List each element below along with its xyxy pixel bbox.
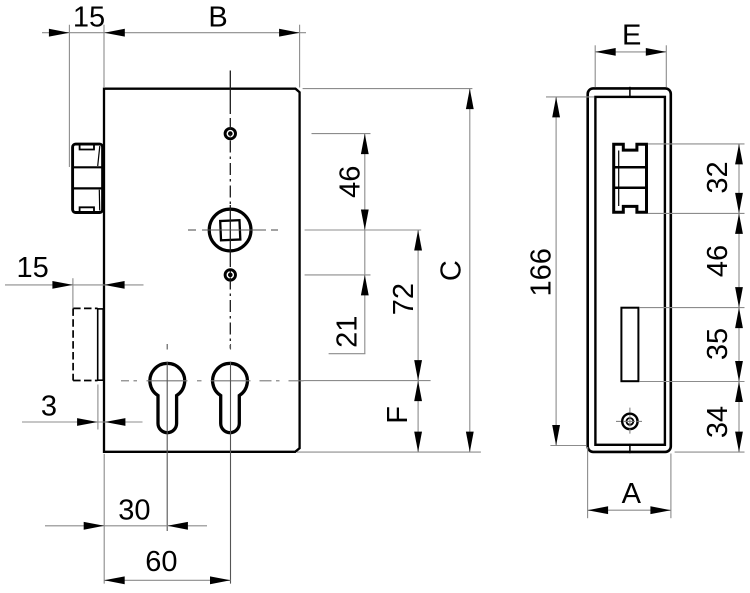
dim 30: line xyxy=(45,525,207,527)
spindle follower with square hole xyxy=(209,209,251,251)
svg-text:3: 3 xyxy=(41,391,57,423)
keyhole 1 vertical centerline xyxy=(166,344,168,531)
dim 15 left: line xyxy=(5,284,144,286)
svg-text:166: 166 xyxy=(526,248,558,296)
dim A extensions xyxy=(587,447,589,518)
dim 21 line vertical + shelf xyxy=(364,230,366,354)
svg-text:F: F xyxy=(382,406,414,424)
dim C / F bottom extension xyxy=(297,451,481,453)
svg-text:15: 15 xyxy=(16,252,48,284)
C top / bottom xyxy=(466,89,474,110)
svg-text:E: E xyxy=(622,20,641,52)
dim 46 line vertical xyxy=(364,134,366,230)
dim F line vertical xyxy=(417,381,419,453)
ext top screw right xyxy=(312,133,371,135)
svg-text:60: 60 xyxy=(145,546,177,578)
dim E line xyxy=(595,51,666,53)
svg-text:30: 30 xyxy=(118,495,150,527)
latch opening (side view) xyxy=(614,144,647,212)
profile cylinder hole left xyxy=(150,363,185,432)
B left arrow xyxy=(104,29,125,37)
dim 15 top: extension line latch edge xyxy=(68,25,70,167)
60 pair (inside) xyxy=(104,576,125,584)
dim A line xyxy=(588,509,671,511)
F top / bottom xyxy=(414,381,422,402)
E right arrow xyxy=(646,48,667,56)
dim 3: line xyxy=(22,421,143,423)
svg-text:15: 15 xyxy=(73,2,105,34)
hidden deadbolt (dashed) xyxy=(73,308,98,380)
keyhole horizontal centerline xyxy=(121,380,304,382)
right column dim line vertical xyxy=(738,144,740,452)
screw hole (side view) xyxy=(616,408,644,436)
dim 166 line vertical xyxy=(555,97,557,446)
A left / right xyxy=(588,506,609,514)
B right arrow xyxy=(279,29,300,37)
svg-text:72: 72 xyxy=(388,283,420,315)
166 top / bottom xyxy=(552,97,560,118)
21 bottom outside arrow xyxy=(361,275,369,296)
spindle horizontal centerline xyxy=(188,229,278,231)
deadbolt face slot xyxy=(98,309,104,380)
top screw hole xyxy=(225,128,235,138)
svg-text:46: 46 xyxy=(702,245,734,277)
lower screw hole xyxy=(225,270,235,280)
dim line 15/B horizontal xyxy=(42,32,306,34)
svg-text:34: 34 xyxy=(702,406,734,438)
svg-text:32: 32 xyxy=(702,161,734,193)
dim 30/60: extension case left bottom xyxy=(103,454,105,584)
dim 72 line vertical xyxy=(417,230,419,381)
svg-text:35: 35 xyxy=(702,328,734,360)
profile cylinder hole right xyxy=(213,363,248,432)
svg-text:46: 46 xyxy=(335,166,367,198)
dim E extension lines xyxy=(594,45,596,87)
dim C line vertical xyxy=(469,89,471,453)
ext lower screw right xyxy=(305,274,371,276)
dim 166 extensions xyxy=(546,96,594,98)
15 left pair (outside) xyxy=(52,281,73,289)
30 pair (outside) xyxy=(84,522,105,530)
svg-text:C: C xyxy=(436,260,468,281)
3 pair (outside) xyxy=(77,418,98,426)
ext spindle right xyxy=(305,229,422,231)
ext keyhole center right xyxy=(304,380,431,382)
dim B: extension line case right xyxy=(299,25,301,88)
15 top left outside arrow xyxy=(49,29,70,37)
faceplate outer outline xyxy=(588,88,671,452)
svg-text:B: B xyxy=(208,2,227,34)
deadbolt opening (side view) xyxy=(621,308,638,382)
dim 15 left: extension xyxy=(72,278,74,308)
right column arrows xyxy=(735,144,743,165)
dim 3: extension of slot edge xyxy=(97,385,99,430)
E left arrow xyxy=(595,48,616,56)
72 top / bottom xyxy=(414,230,422,251)
svg-text:A: A xyxy=(622,478,642,510)
right column extensions xyxy=(648,143,745,145)
faceplate split ticks xyxy=(629,87,631,98)
dim B: extension line case left xyxy=(103,25,105,88)
46 front top / bottom xyxy=(361,134,369,155)
vertical centerline of case xyxy=(229,71,231,115)
dim 60: line xyxy=(104,579,230,581)
lock case body xyxy=(104,89,300,452)
keyhole 2 vertical centerline xyxy=(230,344,232,584)
dim C: top extension xyxy=(303,88,473,90)
svg-text:21: 21 xyxy=(332,316,364,348)
case inner outline xyxy=(595,97,665,445)
latch bolt (front view) xyxy=(73,144,103,212)
